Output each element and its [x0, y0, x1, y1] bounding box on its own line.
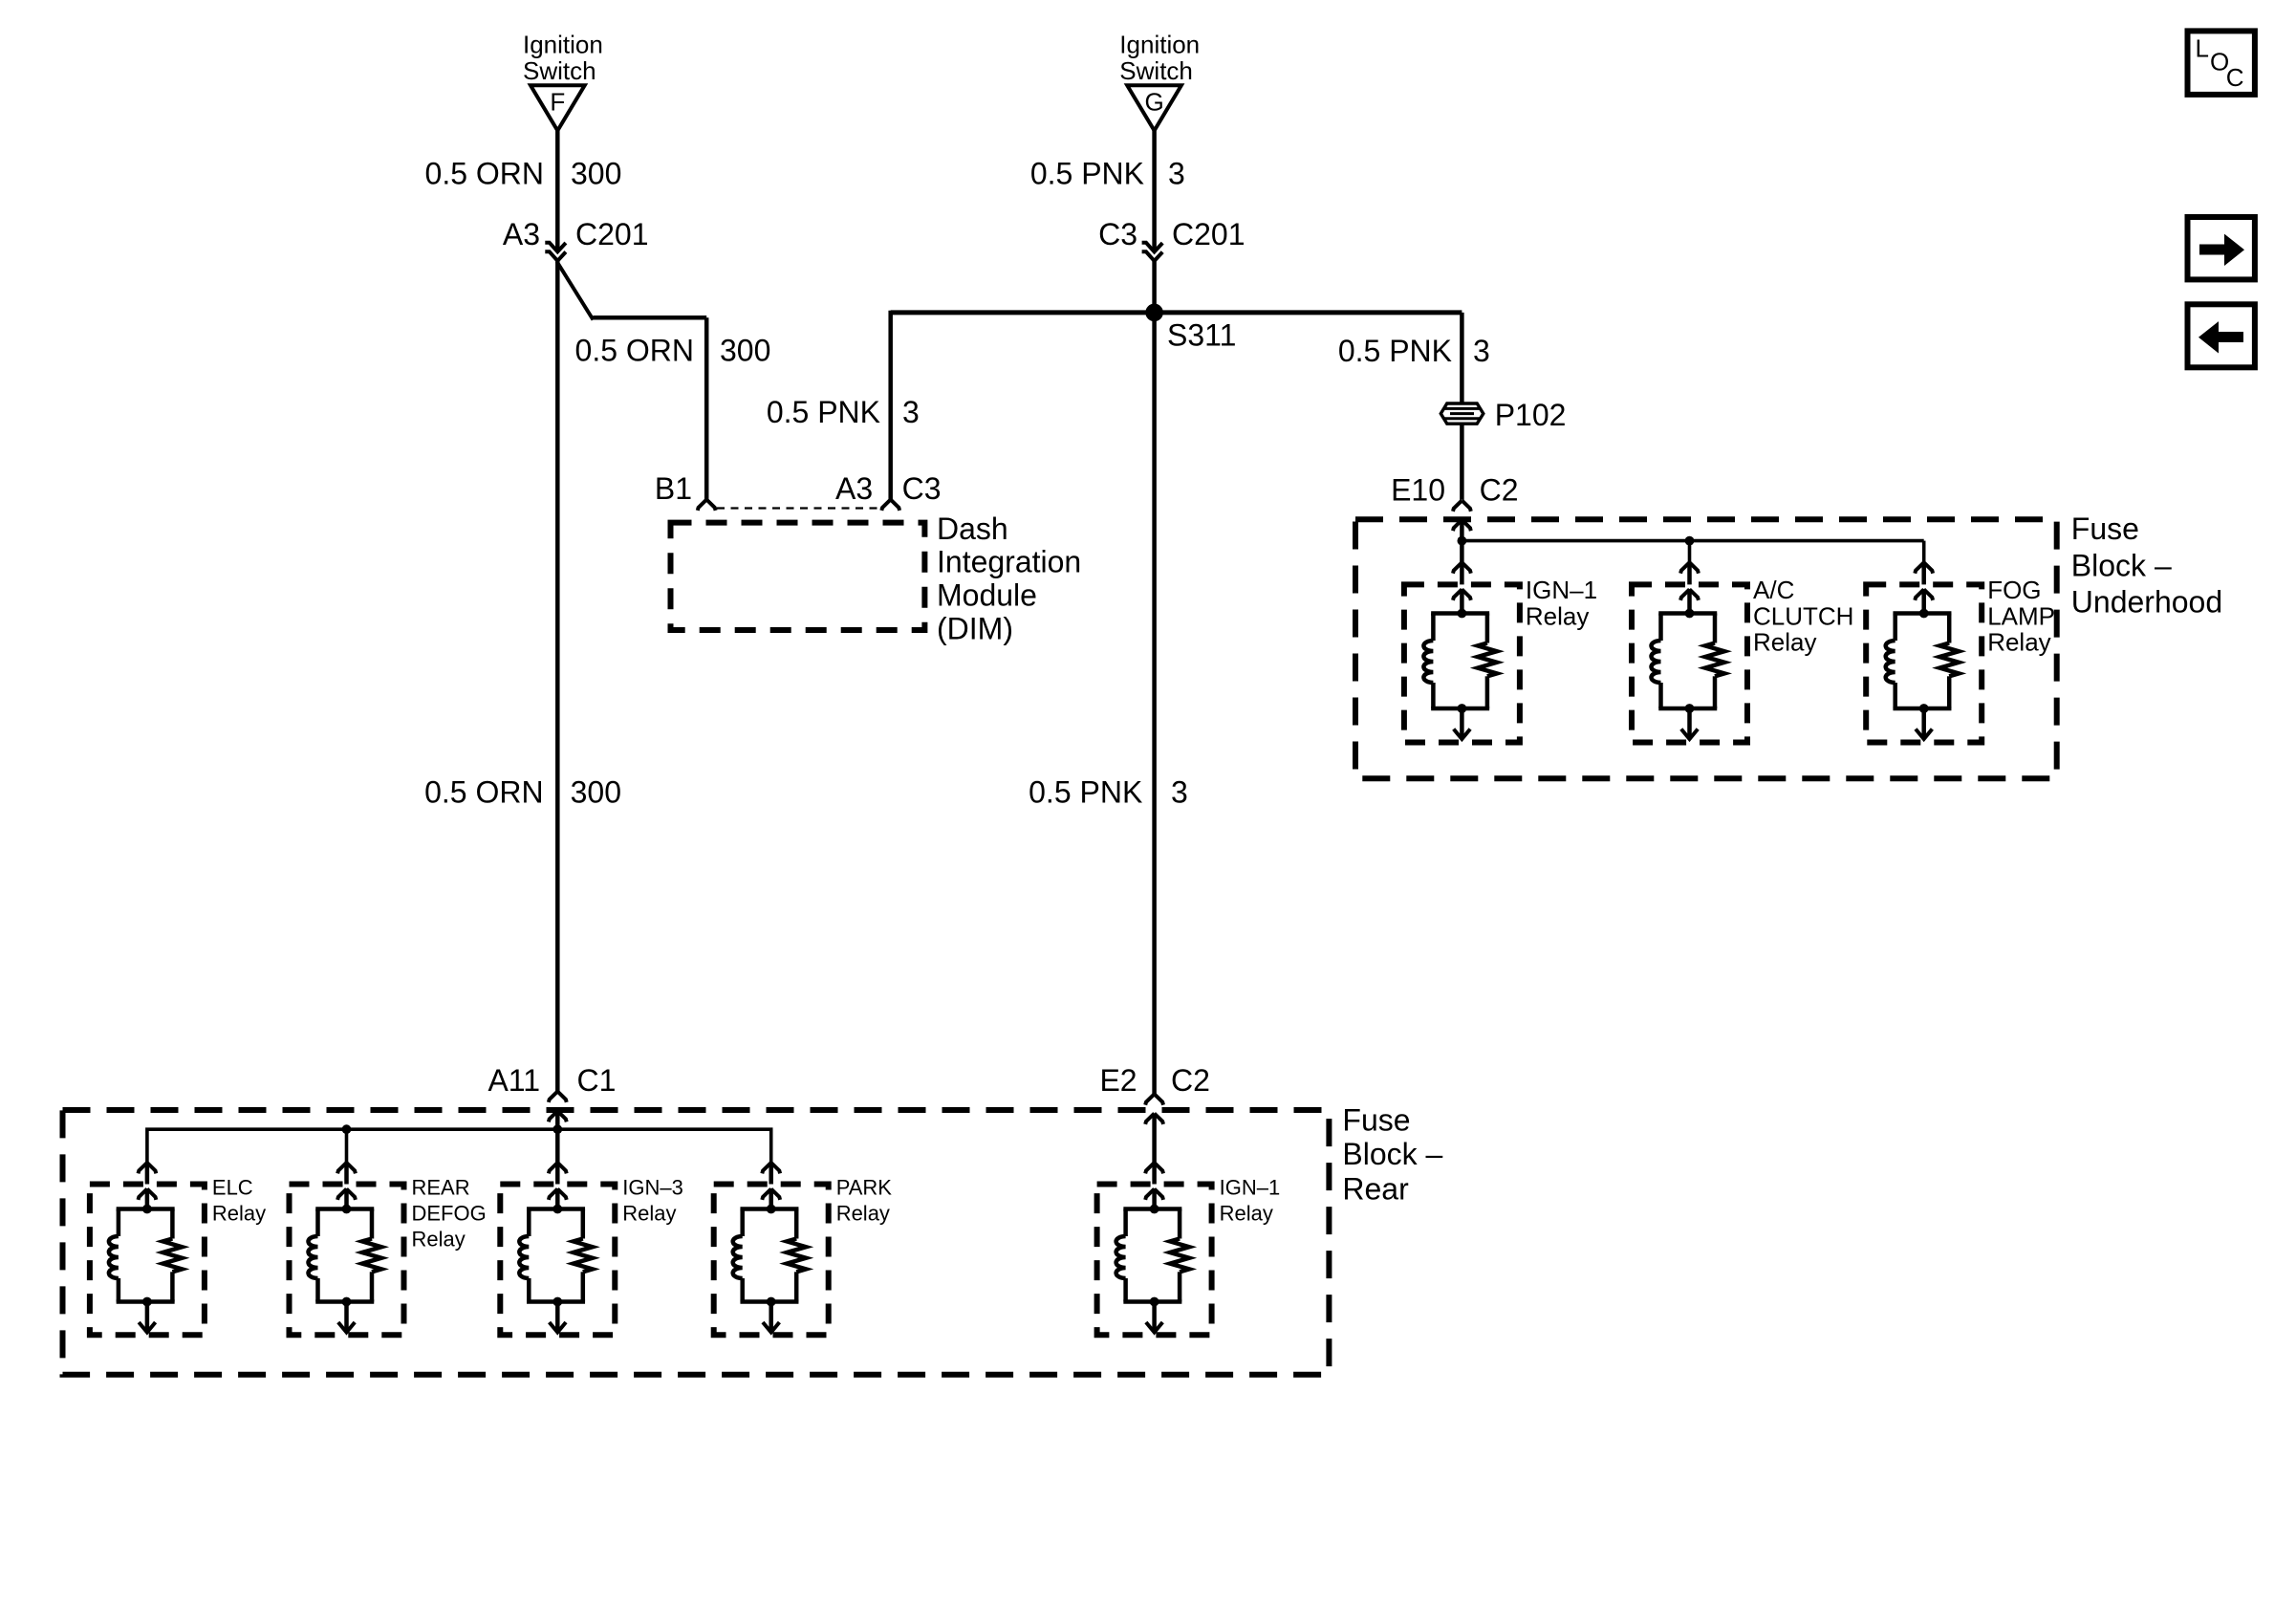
svg-text:IGN–1: IGN–1 — [1220, 1175, 1281, 1199]
relay coil windings — [1423, 641, 1433, 683]
wire: branch diagonal to DIM B1 — [557, 262, 594, 320]
pin chevron inside relay box — [1453, 589, 1462, 599]
svg-text:E2: E2 — [1099, 1063, 1137, 1098]
splice node S311 — [1145, 304, 1163, 322]
svg-text:A3: A3 — [835, 471, 873, 506]
relay bottom node — [767, 1297, 776, 1307]
relay output wire — [1921, 708, 1926, 738]
wire: bus drop to P102 — [1460, 313, 1464, 403]
relay output wire — [769, 1302, 773, 1332]
fuse block rear dashed box — [63, 1110, 1330, 1375]
relay inner dashed box — [500, 1185, 615, 1336]
relay output arrow — [139, 1322, 155, 1333]
chevron above rear relay box x=1207.6 — [1145, 1163, 1154, 1173]
wire: relay feed inside box — [1687, 589, 1692, 614]
relay bottom rail — [117, 1299, 175, 1304]
power symbol: Ignition Switch G — [1119, 31, 1200, 131]
relay label: A/C CLUTCH Relay — [1753, 576, 1853, 657]
wire: horizontal to B1 riser — [594, 316, 707, 320]
relay inner dashed box — [1632, 584, 1747, 742]
svg-text:Relay: Relay — [622, 1202, 676, 1226]
wire: C201 C3 down to fuse block rear E2 (0.5 PNK 3) — [1152, 261, 1157, 1094]
relay bottom node — [142, 1297, 152, 1307]
relay inner dashed box — [90, 1185, 205, 1336]
relay resistor branch wire — [581, 1209, 586, 1239]
svg-text:A3: A3 — [503, 217, 540, 251]
svg-text:Rear: Rear — [1342, 1171, 1409, 1206]
relay resistor zigzag — [1170, 1239, 1189, 1273]
module label: Dash Integration Module (DIM) — [937, 512, 1081, 646]
wire: DIM C3 riser up to S311 bus (0.5 PNK 3) — [888, 311, 893, 500]
svg-text:300: 300 — [720, 334, 770, 368]
relay coil branch wire — [740, 1209, 745, 1237]
relay output arrow — [1916, 729, 1932, 740]
svg-text:IGN–1: IGN–1 — [1526, 576, 1597, 604]
svg-text:C1: C1 — [577, 1063, 617, 1098]
relay bottom rail — [1123, 1299, 1181, 1304]
module DIM dashed box — [671, 523, 925, 630]
relay top rail — [117, 1207, 175, 1211]
connector chevron inside rear box (A11) — [549, 1111, 557, 1121]
relay coil branch wire — [1123, 1209, 1128, 1237]
connector chevron inside rear box (E2) — [1145, 1114, 1154, 1124]
relay bottom node — [552, 1297, 562, 1307]
connector chevron at DIM B1 — [698, 500, 706, 511]
pin chevron inside relay box — [762, 1189, 770, 1200]
relay output wire — [1152, 1302, 1157, 1332]
relay bottom rail — [527, 1299, 585, 1304]
relay label: IGN–1 Relay — [1526, 576, 1597, 630]
wire: relay feed inside box — [344, 1188, 349, 1209]
relay output arrow — [550, 1322, 566, 1333]
wire: C201 A3 down to fuse block rear A11 (0.5 ORN 300) — [555, 261, 560, 1092]
svg-text:FOG: FOG — [1987, 576, 2041, 604]
relay top rail — [740, 1207, 798, 1211]
svg-text:Relay: Relay — [1753, 628, 1816, 657]
svg-text:0.5 ORN: 0.5 ORN — [424, 775, 543, 810]
relay label: REAR DEFOG Relay — [412, 1175, 487, 1251]
relay bottom node — [1919, 704, 1929, 713]
wire: fog lamp relay drop — [1922, 541, 1926, 563]
relay output arrow — [1681, 729, 1698, 740]
svg-text:ELC: ELC — [212, 1175, 253, 1199]
relay inner dashed box — [1404, 584, 1520, 742]
relay inner dashed box — [714, 1185, 829, 1336]
pin chevron inside relay box — [1145, 1189, 1154, 1200]
chevron above rear relay box x=806.7 — [762, 1163, 770, 1173]
relay resistor zigzag — [574, 1239, 593, 1273]
connector chevron inside underhood box — [1453, 520, 1462, 531]
relay resistor zigzag — [787, 1239, 806, 1273]
relay coil windings — [1652, 641, 1661, 683]
relay output arrow — [1146, 1322, 1162, 1333]
relay bottom node — [1685, 704, 1695, 713]
chevron above rear relay box x=362.5 — [337, 1163, 346, 1173]
relay label: PARK Relay — [836, 1175, 893, 1225]
junction node at rear defog feed — [342, 1124, 352, 1134]
relay coil windings — [109, 1236, 119, 1278]
relay inner dashed box — [1866, 584, 1982, 742]
svg-text:Relay: Relay — [1526, 601, 1589, 630]
chevron above relay box x=2012.7 — [1915, 562, 1923, 573]
wire: underhood feed down to bus node — [1460, 520, 1464, 563]
svg-text:Relay: Relay — [212, 1202, 266, 1226]
connector chevron E2/C2 — [1145, 1094, 1154, 1104]
relay top node — [1458, 609, 1467, 619]
svg-text:Relay: Relay — [412, 1228, 466, 1252]
pin chevron inside relay box — [1915, 589, 1923, 599]
relay resistor zigzag — [362, 1239, 381, 1273]
svg-text:Module: Module — [937, 578, 1037, 613]
svg-text:LAMP: LAMP — [1987, 601, 2055, 630]
block label: Fuse Block - Rear — [1342, 1103, 1442, 1207]
svg-text:Fuse: Fuse — [2071, 512, 2139, 546]
pin chevron inside relay box — [549, 1189, 557, 1200]
svg-text:C3: C3 — [902, 471, 942, 506]
relay coil branch wire — [117, 1209, 121, 1237]
svg-text:Switch: Switch — [1119, 56, 1193, 85]
svg-text:F: F — [550, 87, 565, 116]
relay output wire — [145, 1302, 150, 1332]
relay resistor branch wire — [1178, 1209, 1182, 1239]
wire: B1 riser down to DIM — [704, 317, 709, 499]
svg-text:(DIM): (DIM) — [937, 612, 1013, 646]
wire: S311 bus — [891, 310, 1462, 315]
nav box: arrow left — [2188, 304, 2255, 367]
relay top rail — [1658, 611, 1717, 616]
connector chevron A11/C1 — [549, 1092, 557, 1102]
svg-text:PARK: PARK — [836, 1175, 893, 1199]
relay output arrow — [1454, 729, 1470, 740]
pin chevron inside relay box — [1680, 589, 1689, 599]
fuse block underhood dashed box — [1355, 519, 2057, 778]
relay bottom rail — [1893, 707, 1951, 711]
wire: relay feed inside box — [769, 1188, 773, 1209]
svg-text:Ignition: Ignition — [523, 31, 603, 59]
svg-text:C: C — [2226, 63, 2244, 92]
wire: P102 down to E10 — [1460, 425, 1464, 500]
junction node at A/C feed — [1685, 536, 1695, 546]
dashed link between B1 and A3 chevrons — [717, 507, 880, 509]
grommet P102 — [1440, 403, 1484, 424]
relay resistor branch wire — [1485, 614, 1490, 643]
svg-text:Block –: Block – — [2071, 548, 2172, 582]
relay coil windings — [309, 1236, 318, 1278]
junction node at IGN-1 feed — [1458, 536, 1467, 546]
svg-text:B1: B1 — [655, 471, 692, 506]
relay top node — [1150, 1205, 1159, 1214]
chevron above relay box x=1529.4 — [1453, 562, 1462, 573]
svg-text:CLUTCH: CLUTCH — [1753, 601, 1853, 630]
svg-text:C2: C2 — [1480, 473, 1519, 508]
relay top node — [552, 1205, 562, 1214]
svg-text:300: 300 — [571, 157, 621, 191]
relay top node — [767, 1205, 776, 1214]
wire: ignition switch F to C201 (0.5 ORN 300) — [555, 128, 560, 251]
relay resistor branch wire — [370, 1209, 375, 1239]
relay label: IGN–3 Relay — [622, 1175, 683, 1225]
svg-text:G: G — [1144, 87, 1163, 116]
wire: relay feed inside box — [1152, 1188, 1157, 1209]
wire: rear internal bus — [147, 1129, 771, 1163]
relay top rail — [527, 1207, 585, 1211]
svg-text:Block –: Block – — [1342, 1137, 1442, 1171]
svg-text:C2: C2 — [1171, 1063, 1210, 1098]
svg-text:Switch: Switch — [523, 56, 596, 85]
svg-text:E10: E10 — [1391, 473, 1445, 508]
relay resistor branch wire — [170, 1209, 175, 1239]
relay top node — [1919, 609, 1929, 619]
nav box: arrow right — [2188, 217, 2255, 279]
svg-text:0.5 PNK: 0.5 PNK — [1338, 334, 1452, 368]
relay label: ELC Relay — [212, 1175, 266, 1225]
pin chevron inside relay box — [337, 1189, 346, 1200]
connector chevron E10/C2 — [1453, 500, 1462, 511]
block label: Fuse Block - Underhood — [2071, 512, 2222, 620]
wire: underhood internal bus — [1462, 539, 1923, 543]
relay output wire — [1687, 708, 1692, 738]
relay output arrow — [763, 1322, 779, 1333]
relay bottom rail — [1431, 707, 1489, 711]
relay resistor branch wire — [794, 1209, 799, 1239]
svg-text:Fuse: Fuse — [1342, 1103, 1410, 1138]
relay top rail — [1431, 611, 1489, 616]
relay output wire — [1460, 708, 1464, 738]
wire: relay feed inside box — [555, 1188, 560, 1209]
relay resistor zigzag — [1705, 643, 1724, 677]
relay inner dashed box — [1097, 1185, 1212, 1336]
svg-text:0.5 PNK: 0.5 PNK — [767, 395, 880, 429]
svg-text:C201: C201 — [1172, 217, 1245, 251]
relay coil windings — [733, 1236, 743, 1278]
relay bottom rail — [1658, 707, 1717, 711]
chevron above rear relay box x=583.3 — [549, 1163, 557, 1173]
svg-text:300: 300 — [571, 775, 621, 810]
svg-text:Ignition: Ignition — [1119, 31, 1200, 59]
relay coil windings — [519, 1236, 529, 1278]
svg-text:IGN–3: IGN–3 — [622, 1175, 683, 1199]
chevron above rear relay box x=153.9 — [139, 1163, 147, 1173]
relay resistor zigzag — [162, 1239, 182, 1273]
svg-text:C201: C201 — [575, 217, 649, 251]
svg-text:Relay: Relay — [1987, 628, 2050, 657]
relay output wire — [344, 1302, 349, 1332]
wire: ignition switch G to C201 (0.5 PNK 3) — [1152, 128, 1157, 251]
connector C201 (A3) inline chevrons — [545, 243, 566, 252]
relay coil windings — [1116, 1236, 1126, 1278]
junction node at IGN-3 feed — [552, 1124, 562, 1134]
svg-text:S311: S311 — [1167, 317, 1236, 352]
wire: relay feed inside box — [1921, 589, 1926, 614]
relay coil branch wire — [1658, 614, 1663, 642]
svg-text:3: 3 — [902, 395, 920, 429]
svg-text:A11: A11 — [487, 1063, 540, 1098]
svg-text:L: L — [2196, 34, 2209, 63]
wire: A11 feed down to rear bus — [555, 1111, 560, 1163]
svg-text:P102: P102 — [1495, 398, 1567, 432]
svg-text:A/C: A/C — [1753, 576, 1794, 604]
relay resistor zigzag — [1478, 643, 1497, 677]
svg-text:3: 3 — [1168, 157, 1185, 191]
relay output wire — [555, 1302, 560, 1332]
relay coil branch wire — [1893, 614, 1897, 642]
relay top rail — [1893, 611, 1951, 616]
wire: relay feed inside box — [145, 1188, 150, 1209]
svg-text:Relay: Relay — [836, 1202, 890, 1226]
relay bottom node — [342, 1297, 352, 1307]
svg-text:Relay: Relay — [1220, 1202, 1273, 1226]
relay top rail — [1123, 1207, 1181, 1211]
svg-text:0.5 PNK: 0.5 PNK — [1030, 157, 1144, 191]
relay top node — [142, 1205, 152, 1214]
relay top node — [1685, 609, 1695, 619]
relay top rail — [315, 1207, 374, 1211]
wire: relay feed inside box — [1460, 589, 1464, 614]
svg-text:DEFOG: DEFOG — [412, 1202, 487, 1226]
svg-text:Underhood: Underhood — [2071, 585, 2222, 620]
relay label: FOG LAMP Relay — [1987, 576, 2055, 657]
connector chevron at DIM A3/C3 — [881, 500, 890, 511]
relay bottom node — [1458, 704, 1467, 713]
svg-text:Integration: Integration — [937, 545, 1081, 579]
relay inner dashed box — [290, 1185, 404, 1336]
svg-text:C3: C3 — [1098, 217, 1137, 251]
wire: A/C clutch relay drop — [1688, 541, 1692, 563]
relay label: IGN–1 Relay — [1220, 1175, 1281, 1225]
svg-text:3: 3 — [1473, 334, 1490, 368]
wire: rear defog relay drop — [345, 1129, 349, 1163]
relay resistor zigzag — [1939, 643, 1959, 677]
svg-text:0.5 ORN: 0.5 ORN — [575, 334, 694, 368]
relay top node — [342, 1205, 352, 1214]
relay resistor branch wire — [1713, 614, 1718, 643]
relay coil branch wire — [527, 1209, 531, 1237]
power symbol: Ignition Switch F — [523, 31, 603, 131]
LOC reference box — [2188, 31, 2255, 95]
connector C201 (C3) inline chevrons — [1142, 243, 1163, 252]
relay coil branch wire — [315, 1209, 320, 1237]
relay coil branch wire — [1431, 614, 1436, 642]
relay resistor branch wire — [1947, 614, 1952, 643]
wire: E2 feed down to IGN-1 rear relay — [1152, 1114, 1157, 1165]
relay coil windings — [1886, 641, 1895, 683]
relay output arrow — [338, 1322, 355, 1333]
chevron above relay box x=1767.5 — [1680, 562, 1689, 573]
relay bottom rail — [315, 1299, 374, 1304]
svg-text:0.5 ORN: 0.5 ORN — [425, 157, 544, 191]
pin chevron inside relay box — [139, 1189, 147, 1200]
svg-text:Dash: Dash — [937, 512, 1008, 546]
relay bottom rail — [740, 1299, 798, 1304]
svg-text:3: 3 — [1171, 775, 1188, 810]
svg-text:0.5 PNK: 0.5 PNK — [1029, 775, 1142, 810]
relay bottom node — [1150, 1297, 1159, 1307]
svg-text:REAR: REAR — [412, 1175, 470, 1199]
